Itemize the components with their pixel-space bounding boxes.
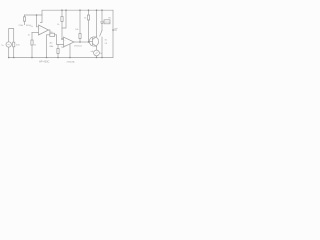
wire bottom ground rail	[9, 57, 113, 59]
svg-text:M: M	[100, 53, 102, 55]
battery label box	[102, 20, 110, 24]
resistor R5	[61, 10, 64, 39]
junction dots	[8, 9, 114, 58]
svg-text:AC: AC	[50, 42, 53, 45]
wire U2 pin to ground	[69, 44, 71, 57]
op-amp U2	[64, 37, 75, 47]
wire collector	[96, 10, 98, 36]
op-amp U1	[39, 25, 49, 35]
wire right edge vertical	[112, 10, 114, 57]
meter M1	[94, 50, 100, 56]
wire inverting input op-amp U1	[37, 15, 39, 27]
wire to U2 non-inverting input	[57, 35, 64, 45]
wire node to ground	[46, 35, 48, 58]
wire meter to ground	[96, 56, 98, 58]
wire non-inverting input op-amp U1	[32, 32, 39, 34]
svg-text:2N1304: 2N1304	[74, 46, 82, 48]
wire U2 inverting input	[62, 10, 66, 28]
resistor R8	[13, 42, 15, 57]
svg-text:2N404A: 2N404A	[67, 60, 75, 63]
wire output tap	[113, 29, 117, 31]
svg-text:HP-430C: HP-430C	[39, 61, 49, 64]
transistor Q1	[89, 37, 99, 47]
capacitor C1	[40, 15, 42, 23]
text labels	[1, 18, 118, 64]
wire W1 feedback horizontal	[25, 14, 43, 16]
battery B1	[100, 10, 103, 30]
wire emitter to meter	[96, 47, 98, 51]
resistor R7	[87, 10, 89, 42]
svg-text:22.5V: 22.5V	[105, 22, 111, 24]
svg-text:out: out	[115, 27, 118, 30]
svg-text:ein: ein	[1, 44, 4, 47]
resistor R6	[79, 10, 81, 42]
source V1	[6, 29, 14, 58]
wire U2 output	[74, 41, 89, 43]
resistor R1	[23, 15, 25, 25]
wire top supply rail	[42, 10, 113, 15]
resistor R4	[57, 45, 59, 58]
resistor R2	[31, 33, 33, 58]
wire U1 output	[49, 30, 51, 33]
resistor R3	[47, 33, 57, 36]
switch S1	[100, 31, 102, 58]
